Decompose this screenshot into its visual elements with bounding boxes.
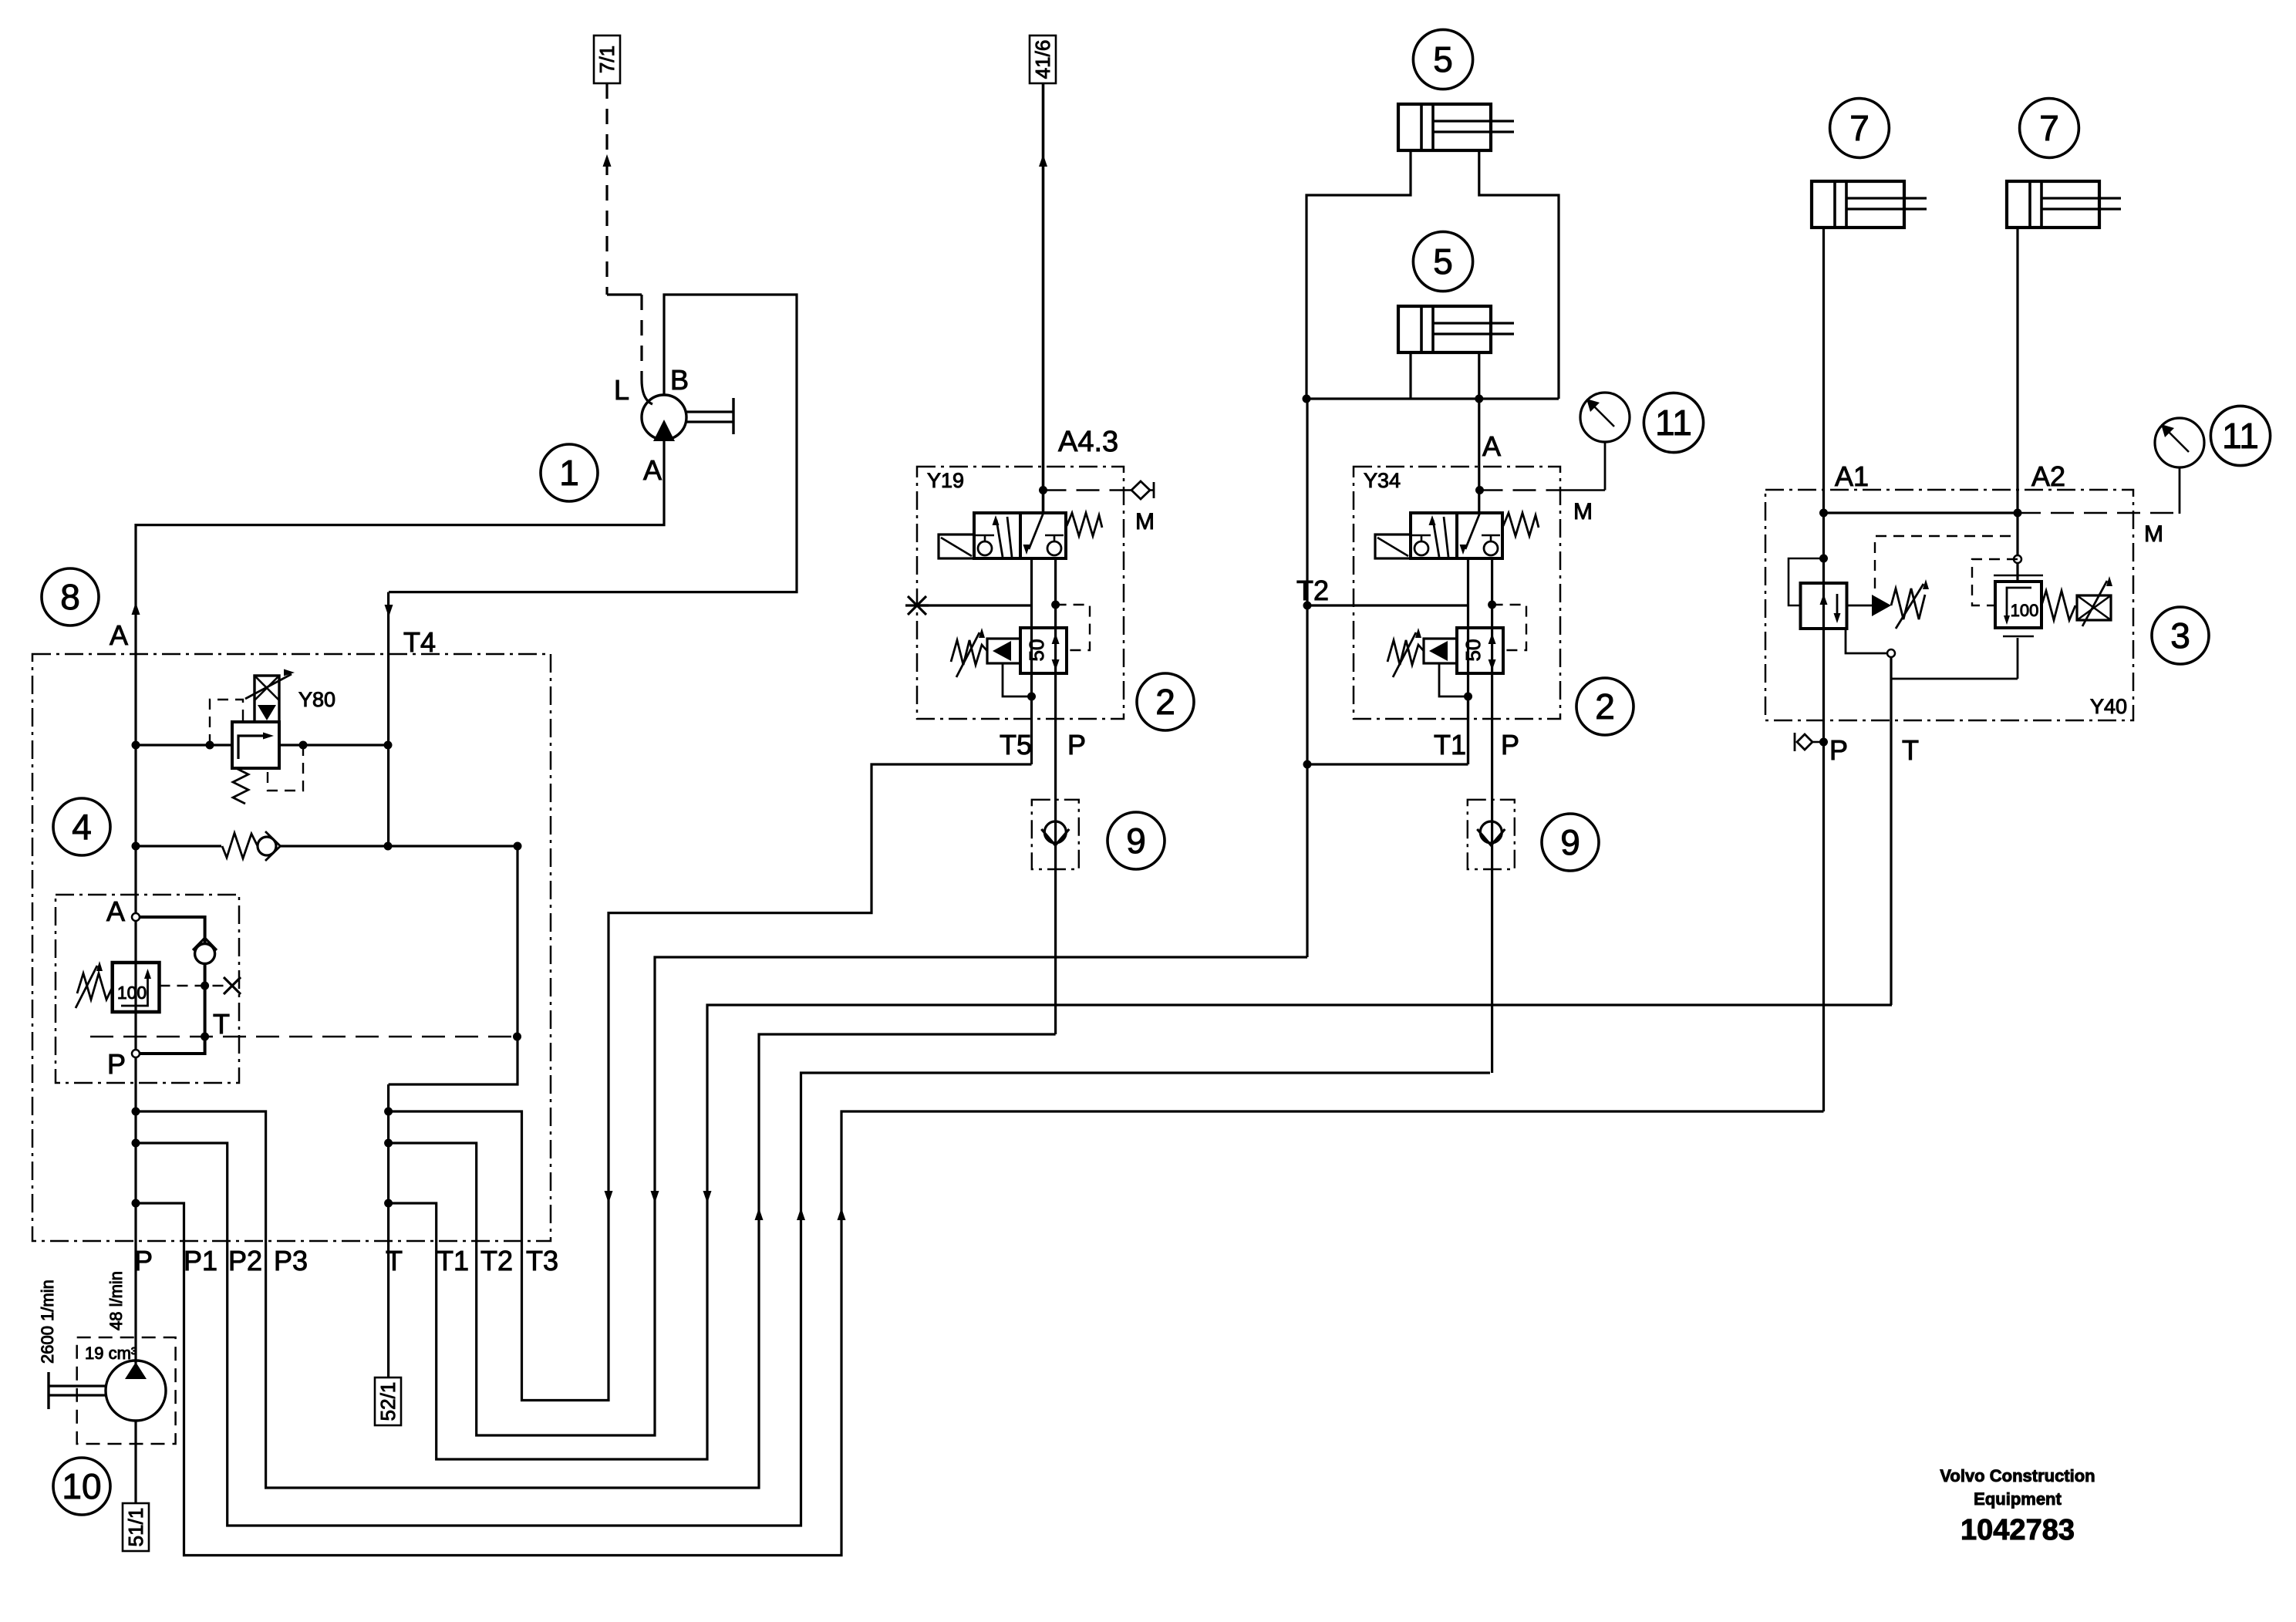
svg-text:50: 50 (1462, 639, 1485, 662)
svg-text:3: 3 (2170, 615, 2190, 656)
svg-text:8: 8 (60, 577, 80, 617)
svg-text:7/1: 7/1 (595, 46, 619, 73)
svg-text:P2: P2 (228, 1245, 262, 1276)
svg-text:Equipment: Equipment (1974, 1489, 2062, 1509)
svg-text:Volvo Construction: Volvo Construction (1940, 1466, 2095, 1485)
svg-text:M: M (1573, 499, 1593, 524)
svg-text:A: A (1482, 430, 1501, 462)
svg-text:51/1: 51/1 (124, 1508, 147, 1547)
svg-text:11: 11 (2222, 416, 2259, 456)
svg-text:P: P (1501, 729, 1519, 760)
svg-text:7: 7 (2039, 108, 2059, 148)
svg-text:T1: T1 (1434, 729, 1466, 760)
svg-text:P1: P1 (184, 1245, 217, 1276)
svg-text:A: A (106, 895, 125, 927)
svg-text:Y80: Y80 (298, 688, 335, 711)
svg-text:5: 5 (1433, 241, 1453, 282)
svg-text:T2: T2 (480, 1245, 513, 1276)
svg-text:2: 2 (1155, 682, 1175, 722)
svg-text:19 cm³: 19 cm³ (85, 1344, 137, 1363)
svg-text:1042783: 1042783 (1961, 1514, 2075, 1546)
svg-text:9: 9 (1560, 822, 1580, 862)
svg-text:A: A (643, 454, 662, 486)
svg-text:T5: T5 (1000, 729, 1032, 760)
svg-text:41/6: 41/6 (1031, 40, 1054, 79)
svg-text:7: 7 (1849, 108, 1870, 148)
svg-text:52/1: 52/1 (376, 1382, 400, 1421)
svg-text:100: 100 (2011, 601, 2039, 620)
svg-text:P: P (1829, 734, 1848, 766)
svg-text:4: 4 (72, 807, 92, 847)
svg-text:9: 9 (1126, 821, 1146, 861)
svg-text:Y40: Y40 (2090, 695, 2127, 718)
svg-text:Y19: Y19 (927, 469, 964, 492)
svg-text:P: P (1067, 729, 1086, 760)
svg-text:P3: P3 (274, 1245, 308, 1276)
svg-text:M: M (1135, 509, 1155, 534)
svg-text:T3: T3 (526, 1245, 558, 1276)
svg-text:A: A (110, 619, 128, 651)
svg-text:10: 10 (62, 1466, 101, 1506)
svg-text:L: L (614, 374, 629, 406)
svg-text:T: T (386, 1245, 403, 1276)
svg-text:T: T (213, 1008, 230, 1040)
svg-text:A2: A2 (2031, 460, 2065, 492)
svg-text:A4.3: A4.3 (1058, 426, 1118, 458)
svg-text:2: 2 (1595, 686, 1615, 727)
svg-text:T: T (1902, 734, 1919, 766)
svg-text:T2: T2 (1296, 575, 1329, 606)
svg-text:50: 50 (1025, 639, 1048, 662)
svg-text:48 l/min: 48 l/min (106, 1271, 126, 1330)
svg-text:1: 1 (559, 453, 579, 493)
svg-text:T1: T1 (437, 1245, 469, 1276)
svg-text:2600 1/min: 2600 1/min (38, 1280, 57, 1364)
svg-text:11: 11 (1655, 403, 1692, 443)
svg-text:P: P (134, 1245, 153, 1276)
svg-text:B: B (670, 364, 689, 396)
svg-text:5: 5 (1433, 39, 1453, 79)
svg-text:100: 100 (117, 983, 147, 1003)
svg-text:P: P (107, 1048, 126, 1080)
svg-text:M: M (2144, 521, 2163, 547)
svg-text:A1: A1 (1835, 460, 1869, 492)
svg-text:Y34: Y34 (1364, 469, 1401, 492)
